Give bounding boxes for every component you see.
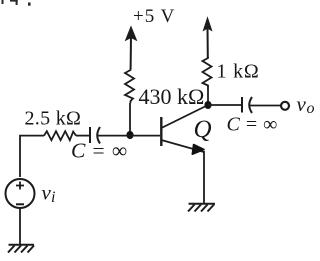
svg-text:i: i bbox=[51, 189, 55, 206]
capacitor C1 curved plate bbox=[97, 127, 100, 144]
supply arrow (left, +5V) bbox=[126, 28, 136, 70]
resistor R1 430 kΩ (vertical) bbox=[125, 69, 134, 103]
wire source to ground bbox=[19, 208, 21, 245]
capacitor C2 curved plate bbox=[249, 97, 252, 113]
wire resistor R1 to base node bbox=[129, 103, 131, 135]
transistor Q1 base bar bbox=[160, 117, 162, 146]
svg-text:2.5 kΩ: 2.5 kΩ bbox=[25, 108, 82, 130]
resistor R3 2.5 kΩ (horizontal) bbox=[44, 131, 76, 140]
source minus sign bbox=[16, 203, 24, 205]
svg-text:430 kΩ: 430 kΩ bbox=[139, 84, 205, 109]
svg-text:Q: Q bbox=[194, 116, 212, 143]
wire collector node to output cap bbox=[208, 104, 241, 106]
svg-text:C = ∞: C = ∞ bbox=[71, 139, 128, 163]
stray scan fragment top-left bbox=[2, 0, 31, 6]
svg-text:v: v bbox=[42, 181, 52, 205]
source Vi circle bbox=[6, 179, 35, 208]
svg-text:1 kΩ: 1 kΩ bbox=[217, 61, 260, 83]
capacitor C2 (output): straight plate bbox=[241, 97, 243, 113]
wire resistor R2 to collector node bbox=[207, 86, 209, 105]
svg-text:v: v bbox=[297, 92, 307, 116]
transistor Q1 collector lead bbox=[161, 106, 206, 128]
wire emitter down bbox=[203, 151, 205, 204]
resistor R2 1 kΩ (vertical) bbox=[203, 57, 212, 87]
source plus sign bbox=[16, 182, 24, 190]
svg-text:o: o bbox=[307, 100, 315, 117]
wire input cap to transistor base bbox=[97, 135, 160, 137]
output terminal circle bbox=[281, 102, 289, 110]
node collector junction bbox=[204, 101, 211, 109]
ground (emitter) bbox=[188, 204, 215, 212]
node base junction bbox=[126, 131, 133, 139]
capacitor C1 (input): straight plate bbox=[89, 127, 91, 143]
svg-text:C = ∞: C = ∞ bbox=[227, 114, 278, 136]
wire cap to output terminal bbox=[249, 105, 282, 107]
wire input corner bbox=[20, 136, 44, 177]
transistor Q1 emitter lead with arrow bbox=[161, 140, 204, 152]
ground (source) bbox=[8, 245, 34, 253]
supply arrow (right, 1kΩ branch) bbox=[204, 19, 212, 58]
wire resistor to input cap bbox=[76, 135, 89, 137]
svg-text:+5 V: +5 V bbox=[133, 6, 175, 27]
